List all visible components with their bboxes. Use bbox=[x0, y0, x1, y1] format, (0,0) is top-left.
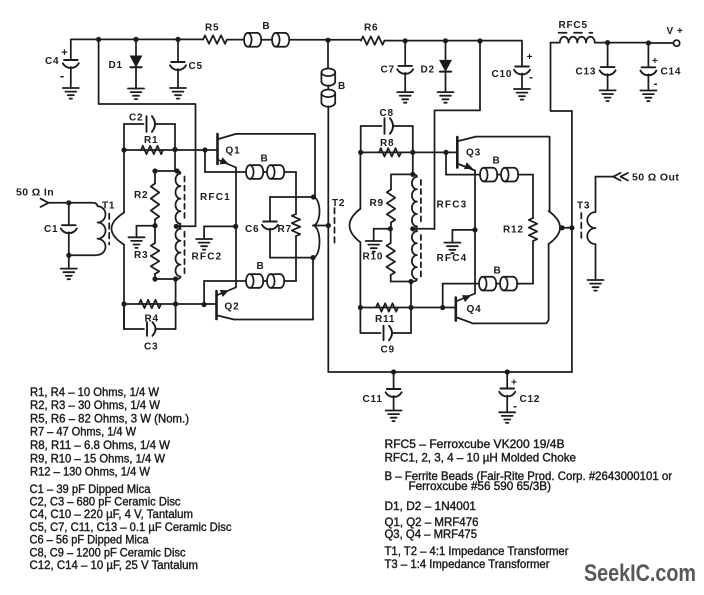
svg-text:R7 – 47 Ohms, 1/4 W: R7 – 47 Ohms, 1/4 W bbox=[30, 426, 136, 439]
svg-text:50 Ω Out: 50 Ω Out bbox=[632, 172, 679, 184]
svg-text:+: + bbox=[511, 378, 517, 389]
svg-text:SeekIC.com: SeekIC.com bbox=[584, 560, 696, 587]
svg-text:R7: R7 bbox=[278, 224, 292, 235]
svg-text:T1, T2 – 4:1 Impedance Transfo: T1, T2 – 4:1 Impedance Transformer bbox=[385, 545, 569, 558]
svg-text:T3 – 1:4 Impedance Transformer: T3 – 1:4 Impedance Transformer bbox=[385, 558, 550, 571]
svg-text:R5: R5 bbox=[205, 23, 219, 34]
svg-text:R2: R2 bbox=[134, 190, 148, 201]
svg-text:R1: R1 bbox=[144, 135, 158, 146]
svg-text:RFC3: RFC3 bbox=[437, 200, 468, 211]
svg-text:C8, C9 – 1200 pF Ceramic Disc: C8, C9 – 1200 pF Ceramic Disc bbox=[30, 546, 186, 559]
svg-text:+: + bbox=[652, 56, 658, 67]
svg-text:R11: R11 bbox=[375, 314, 395, 325]
svg-text:C11: C11 bbox=[363, 394, 383, 405]
svg-text:D2: D2 bbox=[421, 65, 435, 76]
svg-text:R8, R11 – 6.8 Ohms, 1/4 W: R8, R11 – 6.8 Ohms, 1/4 W bbox=[30, 439, 170, 452]
svg-text:C12: C12 bbox=[520, 394, 541, 405]
svg-text:Q1: Q1 bbox=[226, 146, 241, 157]
svg-text:C14: C14 bbox=[661, 67, 682, 78]
svg-text:+: + bbox=[527, 52, 533, 63]
svg-text:50 Ω In: 50 Ω In bbox=[16, 187, 54, 199]
svg-text:-: - bbox=[529, 70, 533, 84]
svg-text:R12: R12 bbox=[503, 225, 524, 236]
svg-text:RFC1, 2, 3, 4 – 10 µH Molded C: RFC1, 2, 3, 4 – 10 µH Molded Choke bbox=[385, 452, 577, 465]
svg-text:V +: V + bbox=[667, 26, 684, 37]
svg-text:+: + bbox=[61, 47, 67, 59]
svg-text:T3: T3 bbox=[577, 201, 590, 212]
svg-text:C1: C1 bbox=[44, 224, 58, 235]
svg-text:R3: R3 bbox=[134, 250, 148, 261]
svg-text:R9, R10 – 15 Ohms, 1/4 W: R9, R10 – 15 Ohms, 1/4 W bbox=[30, 452, 165, 465]
svg-text:R10: R10 bbox=[363, 252, 384, 263]
svg-text:R6: R6 bbox=[364, 23, 378, 34]
svg-text:C13: C13 bbox=[576, 67, 597, 78]
svg-text:D1, D2 – 1N4001: D1, D2 – 1N4001 bbox=[385, 500, 477, 513]
svg-text:C10: C10 bbox=[492, 69, 513, 80]
svg-text:C1 – 39 pF Dipped Mica: C1 – 39 pF Dipped Mica bbox=[30, 483, 152, 496]
svg-text:B: B bbox=[494, 266, 501, 277]
svg-text:RFC2: RFC2 bbox=[192, 252, 223, 263]
svg-text:RFC5: RFC5 bbox=[559, 20, 588, 31]
svg-text:R2, R3 – 30 Ohms, 1/4 W: R2, R3 – 30 Ohms, 1/4 W bbox=[30, 399, 160, 412]
svg-text:B: B bbox=[493, 156, 500, 167]
svg-text:C9: C9 bbox=[381, 345, 395, 356]
svg-text:R1, R4 – 10 Ohms, 1/4 W: R1, R4 – 10 Ohms, 1/4 W bbox=[30, 386, 159, 399]
svg-text:-: - bbox=[513, 399, 517, 413]
svg-text:-: - bbox=[654, 77, 658, 91]
svg-text:B: B bbox=[257, 261, 264, 272]
svg-text:C5: C5 bbox=[189, 61, 203, 72]
svg-text:C3: C3 bbox=[144, 342, 158, 353]
svg-text:C2, C3 – 680 pF Ceramic Disc: C2, C3 – 680 pF Ceramic Disc bbox=[30, 496, 181, 509]
svg-text:Q3: Q3 bbox=[466, 148, 481, 159]
svg-text:T1: T1 bbox=[102, 201, 115, 212]
svg-text:R5, R6 – 82 Ohms, 3 W (Nom.): R5, R6 – 82 Ohms, 3 W (Nom.) bbox=[30, 412, 189, 425]
svg-text:D1: D1 bbox=[109, 60, 123, 71]
svg-text:RFC4: RFC4 bbox=[437, 253, 468, 264]
svg-text:RFC5 – Ferroxcube VK200 19/4B: RFC5 – Ferroxcube VK200 19/4B bbox=[385, 438, 565, 451]
svg-text:C5, C7, C11, C13 – 0.1 µF Cera: C5, C7, C11, C13 – 0.1 µF Ceramic Disc bbox=[30, 521, 232, 534]
svg-text:R12 – 130 Ohms, 1/4 W: R12 – 130 Ohms, 1/4 W bbox=[30, 466, 150, 479]
svg-text:Q3, Q4 – MRF475: Q3, Q4 – MRF475 bbox=[385, 528, 478, 541]
svg-text:-: - bbox=[60, 68, 64, 83]
svg-text:R9: R9 bbox=[370, 198, 384, 209]
svg-text:Ferroxcube #56 590 65/3B): Ferroxcube #56 590 65/3B) bbox=[409, 480, 552, 493]
svg-text:Q2: Q2 bbox=[225, 302, 240, 313]
svg-text:C8: C8 bbox=[380, 108, 394, 119]
svg-text:C4, C10 – 220 µF, 4 V, Tantalu: C4, C10 – 220 µF, 4 V, Tantalum bbox=[30, 508, 194, 521]
svg-text:T2: T2 bbox=[332, 198, 345, 209]
svg-text:C6: C6 bbox=[245, 224, 259, 235]
svg-text:C12, C14 – 10 µF, 25 V Tantalu: C12, C14 – 10 µF, 25 V Tantalum bbox=[30, 559, 199, 572]
svg-text:B: B bbox=[261, 154, 268, 165]
svg-text:C4: C4 bbox=[45, 56, 59, 67]
svg-text:Q4: Q4 bbox=[467, 304, 482, 315]
svg-text:B: B bbox=[262, 21, 269, 32]
svg-text:C7: C7 bbox=[381, 65, 395, 76]
svg-text:C6 – 56 pF Dipped Mica: C6 – 56 pF Dipped Mica bbox=[30, 534, 150, 547]
svg-text:C2: C2 bbox=[129, 113, 143, 124]
svg-text:B: B bbox=[338, 81, 345, 92]
svg-text:RFC1: RFC1 bbox=[200, 192, 231, 203]
svg-text:R8: R8 bbox=[380, 138, 394, 149]
